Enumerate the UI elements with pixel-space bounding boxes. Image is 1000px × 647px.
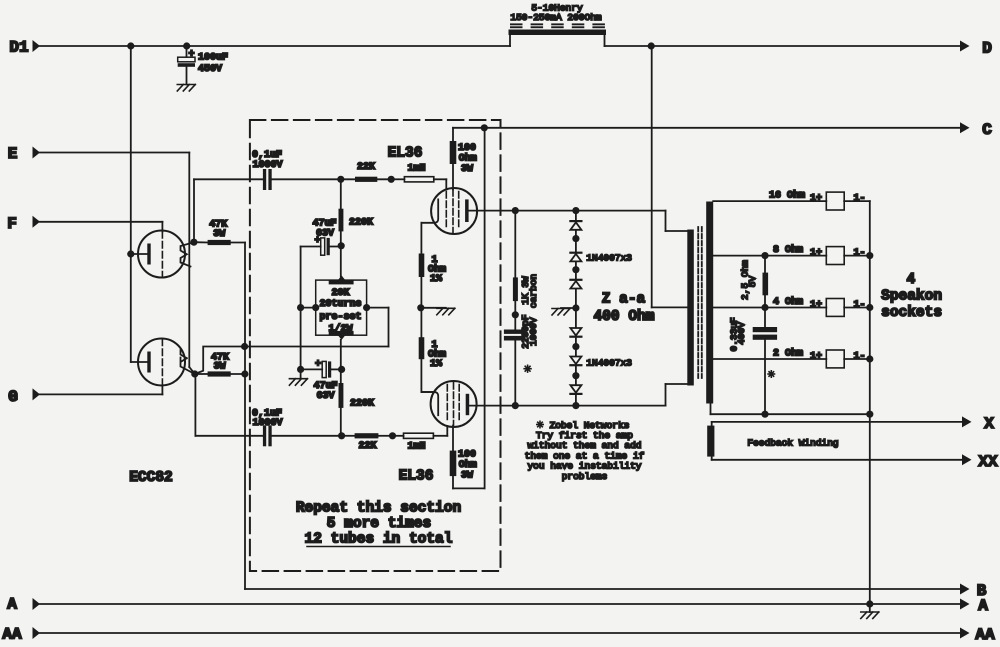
speakon socket 3 box (826, 299, 844, 317)
svg-text:F: F (7, 215, 17, 233)
svg-text:D1: D1 (9, 39, 28, 57)
svg-text:400 Ohm: 400 Ohm (594, 309, 655, 325)
wire L2 left (391, 178, 404, 180)
pentode V2 cathode (421, 199, 438, 222)
node: V1a cathode junction (190, 239, 197, 246)
capacitor C1 bottom plate (178, 63, 195, 67)
svg-text:220K: 220K (349, 218, 373, 229)
wire E input (40, 152, 189, 154)
wire speaker return column (869, 201, 871, 604)
node: D rail junction to 100uF (183, 42, 190, 49)
svg-text:problems: problems (562, 471, 608, 482)
wire centre node to R9 (420, 308, 422, 337)
resistor R12 2,5 Ohm 5V body (763, 273, 769, 296)
wire AA rail (40, 632, 961, 634)
wire 16 Ohm tap (713, 200, 826, 202)
node: V1b cathode junction (191, 370, 198, 377)
wire R8 to centre ground node (420, 277, 422, 308)
svg-text:12 tubes in total: 12 tubes in total (305, 532, 453, 548)
wire 8 Ohm tap (713, 255, 826, 257)
wire feedback top stub (711, 422, 713, 426)
wire pot right to grid return (367, 307, 389, 309)
svg-text:G: G (8, 388, 18, 406)
svg-text:X: X (984, 415, 994, 433)
wire pot bottom link (340, 340, 342, 370)
svg-text:Ohm: Ohm (459, 459, 477, 471)
wire C3 right (272, 435, 342, 437)
svg-text:1%: 1% (430, 359, 442, 370)
wire socket4 to return column (844, 358, 870, 360)
ground at A rail (869, 604, 871, 612)
triode V1a cathode (181, 242, 194, 266)
wire X line (712, 421, 962, 423)
wire lower 220K link top (340, 369, 342, 383)
wire V3 anode line (469, 405, 665, 407)
ground centre (cathode sense) (437, 307, 455, 309)
pentode V2 EL36 envelope (431, 188, 477, 234)
node: upper 47uF junction (338, 242, 345, 249)
wire V2 anode to transformer primary top (665, 211, 667, 231)
svg-text:1-: 1- (853, 300, 865, 311)
svg-text:EL36: EL36 (388, 146, 423, 162)
wire L3 left (393, 435, 404, 437)
terminal AA arrow right (960, 628, 970, 639)
pentode V3 grid g2 (dashed) (453, 383, 455, 426)
svg-text:400V: 400V (736, 322, 747, 345)
pentode V3 EL36 envelope (431, 381, 477, 427)
ground below C1 (177, 84, 195, 86)
wire V1b anode (131, 361, 148, 363)
wire C4 left (301, 246, 321, 248)
svg-text:100uF: 100uF (198, 53, 228, 64)
resistor R4 22K body (355, 433, 379, 438)
terminal A arrow right (960, 599, 970, 610)
svg-text:1000V: 1000V (252, 418, 282, 429)
svg-text:3W: 3W (214, 361, 226, 372)
terminal AA arrow left (33, 627, 41, 639)
transformer T1 core (dashed) (697, 227, 699, 378)
svg-text:1-: 1- (853, 194, 865, 205)
resistor R8 1 Ohm 1% body (419, 254, 425, 278)
svg-text:EL36: EL36 (399, 469, 434, 485)
wire XX line (712, 459, 962, 461)
wire R12 bottom (764, 295, 766, 307)
wire B feeder vertical (244, 243, 246, 590)
node: V1a anode junction (127, 250, 134, 257)
svg-text:1%: 1% (430, 274, 442, 285)
svg-text:1+: 1+ (810, 352, 822, 363)
pentode V2 anode plate (465, 199, 469, 222)
triode V1a grid (dashed) (161, 232, 163, 278)
svg-text:Repeat this section: Repeat this section (296, 501, 461, 517)
resistor R10 100 Ohm 3W body (450, 451, 457, 477)
wire R3 left (341, 178, 355, 180)
node: lower 47uF junction (338, 366, 345, 373)
transformer T1 primary winding bar (687, 230, 694, 386)
node: diode string bottom (572, 402, 579, 409)
svg-text:1-: 1- (853, 248, 865, 259)
wire ground column (left) (300, 247, 302, 378)
wire L2 right to V2 grid (434, 178, 447, 180)
wire 2 Ohm tap (713, 358, 826, 360)
wire C6 bottom (514, 341, 516, 406)
svg-text:22K: 22K (357, 162, 375, 173)
wire V1a cathode up to coupling cap (193, 179, 195, 242)
node: ground column junction (297, 366, 304, 373)
svg-text:100: 100 (458, 450, 476, 461)
capacitor C6 2200pF plates (504, 330, 525, 334)
wire R5-pot link (340, 247, 342, 277)
terminal F arrow (33, 216, 41, 228)
svg-text:1mH: 1mH (407, 164, 425, 175)
node: 4 Ohm tap junction (761, 304, 768, 311)
capacitor C4 left plate (outlined) (321, 238, 325, 255)
choke L1 core dashes (510, 23, 523, 25)
node: lower grid line left junction (338, 432, 345, 439)
wire HT feed to ECC82 anodes (130, 46, 132, 362)
svg-text:63V: 63V (316, 228, 334, 239)
node: D rail junction to ECC82 anodes (127, 42, 134, 49)
svg-text:3W: 3W (213, 229, 225, 240)
svg-text:D: D (982, 40, 992, 58)
wire R10 top to g2 (452, 426, 454, 451)
svg-text:100: 100 (458, 143, 476, 154)
wire diode string segment (575, 211, 577, 406)
svg-text:1N4007x3: 1N4007x3 (586, 357, 632, 368)
svg-text:5V: 5V (747, 276, 758, 288)
node: R2 right junction (241, 370, 248, 377)
note asterisk (537, 424, 543, 426)
underline for 12 tubes in total (307, 546, 450, 548)
node: cathode sense centre (417, 304, 424, 311)
node: diode junction (572, 266, 579, 273)
svg-text:AA: AA (975, 626, 995, 644)
capacitor C5 right plate (328, 361, 331, 377)
pentode V2 grid g3 (dashed) (458, 192, 460, 229)
svg-text:150-250mA 200Ohm: 150-250mA 200Ohm (510, 12, 602, 23)
svg-text:C: C (982, 121, 992, 139)
inductor L2 1mH body (outlined) (404, 177, 433, 182)
node: diode junction (572, 235, 579, 242)
diode D4 1N4007 (570, 336, 581, 338)
speakon socket 1 box (826, 192, 844, 210)
pentode V3 grid g3 (dashed) (458, 385, 460, 422)
capacitor C2 0,1uF 1000V upper plates (263, 169, 266, 190)
wire pot left link (301, 307, 316, 309)
svg-text:450V: 450V (198, 64, 222, 75)
triode V1b envelope (138, 339, 185, 386)
svg-text:sockets: sockets (881, 305, 942, 321)
choke L1 winding bar (509, 30, 607, 36)
wire G input to V1b grid (40, 393, 162, 395)
wire Zobel top (514, 211, 516, 278)
terminal XX arrow (962, 454, 972, 465)
svg-text:63V: 63V (316, 391, 334, 402)
svg-text:pre-set: pre-set (319, 312, 361, 323)
node: diode junction (572, 343, 579, 350)
svg-text:1mH: 1mH (407, 441, 425, 452)
svg-text:1+: 1+ (810, 300, 822, 311)
pentode V2 grid g2 (dashed) (452, 190, 454, 233)
speakon socket 4 box (826, 350, 844, 368)
resistor R3 22K body (355, 177, 377, 182)
wire R11 to C6 (514, 301, 516, 329)
svg-text:Ohm: Ohm (459, 152, 477, 164)
wire C7 bottom (764, 340, 766, 414)
node: upper grid line left junction (337, 176, 344, 183)
pentode V2 grid g1 (dashed) (445, 192, 447, 229)
svg-text:E: E (8, 145, 18, 163)
wire socket2 to return column (844, 255, 870, 257)
node: pot left terminal on box (312, 304, 319, 311)
wire R4 right (378, 435, 392, 437)
wire R4 left (342, 435, 355, 437)
node: return column 8 Ohm (866, 252, 873, 259)
svg-text:AA: AA (2, 626, 22, 644)
wire centre tap vertical (651, 46, 653, 307)
wire R10 bottom loop (452, 476, 454, 488)
potentiometer P1 wiper arrow bottom (338, 335, 345, 340)
terminal X arrow (962, 416, 972, 427)
svg-text:carbon: carbon (528, 274, 539, 308)
wire C rail (484, 127, 960, 129)
asterisk mark at C7 (768, 373, 774, 375)
svg-text:20K: 20K (331, 288, 349, 299)
wire V1a anode (131, 253, 148, 255)
svg-text:1N4007x3: 1N4007x3 (586, 252, 632, 263)
resistor R11 1K 3W carbon body (513, 277, 518, 301)
inductor L3 1mH body (outlined) (404, 433, 434, 438)
wire centre tap horizontal (652, 306, 688, 308)
node: diode string top (572, 207, 579, 214)
svg-text:4 Ohm: 4 Ohm (773, 296, 803, 308)
wire R1 right to B line (231, 242, 245, 244)
triode V1a envelope (138, 231, 185, 278)
triode V1b grid (dashed) (161, 339, 163, 385)
diode D5 1N4007 (570, 364, 581, 366)
node: return column 4 Ohm (866, 304, 873, 311)
svg-text:XX: XX (978, 453, 998, 471)
terminal A arrow left (33, 598, 41, 610)
wire C7 top (764, 308, 766, 328)
svg-text:220K: 220K (350, 399, 374, 410)
wire C2 right (272, 178, 341, 180)
resistor R6 220K lower body (339, 383, 344, 408)
wire socket3 to return column (844, 307, 870, 309)
wire B rail (245, 588, 961, 590)
svg-text:5 more times: 5 more times (327, 516, 431, 532)
potentiometer P1 wiper arrow top (338, 276, 345, 281)
terminal B arrow (960, 584, 970, 595)
terminal E arrow (33, 147, 41, 159)
resistor R1 47K 3W body (208, 240, 231, 245)
wire R3 right (377, 178, 391, 180)
choke L1 5-10Henry riser left (509, 34, 511, 46)
wire R7 top to screen node (452, 128, 454, 141)
node: 8 Ohm tap junction (761, 252, 768, 259)
diode D2 1N4007 (570, 252, 581, 254)
capacitor C1 top plate (outlined) (178, 57, 195, 62)
wire secondary bottom tap (710, 404, 712, 415)
node: secondary bottom at return column (866, 411, 873, 418)
node: speaker return to A rail (866, 600, 873, 607)
triode V1b anode plate (147, 352, 150, 373)
wire C5 right (331, 368, 341, 370)
wire grid return from V1b cathode (195, 347, 389, 375)
svg-text:A: A (978, 597, 988, 615)
wire bias column top (from upper grid junction) (340, 179, 342, 208)
node: diode junction (572, 372, 579, 379)
svg-text:Speakon: Speakon (881, 289, 942, 305)
wire C2 left (194, 178, 263, 180)
node: Zobel mid junction (512, 311, 519, 318)
triode V1b cathode (181, 350, 195, 374)
node: lower grid line mid junction (389, 432, 396, 439)
wire to centre ground (421, 307, 446, 309)
wire L3 right to V3 grid (433, 435, 447, 437)
resistor R2 47K 3W body (208, 371, 231, 376)
terminal D1 arrow (33, 40, 41, 52)
svg-text:Z a-a: Z a-a (602, 292, 646, 308)
svg-text:3W: 3W (461, 164, 473, 175)
choke L1 riser right (604, 34, 606, 46)
node: pot right terminal (363, 304, 370, 311)
wire V2 cathode down (420, 223, 422, 254)
pentode V3 cathode (421, 392, 438, 415)
capacitor C3 0,1uF 1000V lower plates (263, 425, 266, 446)
node: return column 2 Ohm (866, 355, 873, 362)
capacitor C5 left plate (outlined) (322, 361, 326, 377)
wire D rail right (605, 45, 961, 47)
svg-text:1/2W: 1/2W (328, 323, 352, 335)
wire screen feed vertical (484, 128, 486, 489)
node: diode string centre (572, 304, 579, 311)
wire V3 anode to transformer primary bottom (665, 384, 667, 406)
node: secondary bottom at C7 column (761, 411, 768, 418)
diode D1 1N4007 (570, 220, 581, 222)
wire V1b cathode down to lower coupling cap (194, 374, 196, 436)
svg-text:+: + (188, 50, 194, 61)
triode V1a anode plate (147, 244, 150, 265)
potentiometer P1 top element bar (329, 280, 354, 285)
wire C5 left (301, 368, 323, 370)
ground diode string centre (552, 308, 570, 310)
capacitor C7 0.33uF 400V plates (753, 327, 777, 332)
capacitor C4 right plate (327, 238, 330, 255)
wire A rail (40, 603, 961, 605)
diode D3 1N4007 (570, 279, 581, 281)
diode D6 1N4007 (570, 393, 581, 395)
svg-text:1+: 1+ (810, 194, 822, 205)
wire R12 top (764, 256, 766, 273)
node: B feeder and grid-return crossing (241, 343, 248, 350)
svg-text:20turns: 20turns (319, 299, 361, 310)
wire R5 to 47uF junction (340, 231, 342, 245)
svg-text:1+: 1+ (810, 248, 822, 259)
wire socket1 to return column (844, 200, 870, 202)
svg-text:1000V: 1000V (252, 160, 282, 171)
pentode V3 anode plate (466, 394, 470, 415)
wire R1 left (194, 241, 208, 243)
resistor R7 100 Ohm 3W body (450, 141, 457, 164)
resistor R9 1 Ohm 1% body (419, 337, 425, 359)
terminal D arrow right (960, 41, 970, 52)
wire R2 left (195, 373, 208, 375)
terminal C arrow (960, 122, 970, 133)
terminal G arrow (33, 388, 41, 400)
speakon socket 2 box (826, 247, 844, 265)
svg-text:2 Ohm: 2 Ohm (773, 347, 803, 359)
wire lower 220K link bottom (340, 408, 342, 436)
wire feedback bottom stub (711, 457, 713, 460)
dashed repeat-section box (250, 120, 501, 571)
node: upper grid line mid junction (388, 176, 395, 183)
node: pot left terminal outer (297, 304, 304, 311)
pentode V3 grid g1 (dashed) (446, 385, 448, 422)
potentiometer P1 body box (316, 280, 367, 335)
svg-text:8 Ohm: 8 Ohm (773, 244, 803, 256)
node: Zobel tap lower (512, 402, 519, 409)
wire D rail left (40, 45, 510, 47)
potentiometer P1 bottom element bar (329, 331, 354, 336)
svg-text:ECC82: ECC82 (129, 470, 173, 486)
node: Zobel tap upper (512, 207, 519, 214)
wire to diode ground (561, 307, 576, 309)
wire R7 bottom to g2 (452, 164, 454, 190)
node: screen supply junction on C rail (481, 124, 488, 131)
capacitor C1 lead bottom (186, 67, 188, 85)
wire E vertical down to V1b cathode (188, 153, 190, 368)
svg-text:Feedback Winding: Feedback Winding (747, 438, 838, 449)
transformer T1 feedback winding bar (707, 426, 714, 457)
Zobel asterisk mark (524, 368, 531, 370)
svg-text:1000V: 1000V (528, 317, 539, 346)
svg-text:16 Ohm: 16 Ohm (769, 190, 805, 202)
wire F input to V1a grid (40, 221, 162, 223)
wire V2 anode line (469, 210, 666, 212)
svg-text:A: A (7, 596, 17, 614)
svg-text:1-: 1- (853, 352, 865, 363)
capacitor C1 100uF 450V lead top (186, 46, 188, 57)
resistor R5 220K upper body (339, 209, 344, 232)
wire R2 right (231, 373, 245, 375)
node: D rail junction to transformer centre tap (648, 42, 655, 49)
wire C4 right (330, 246, 341, 248)
svg-text:4: 4 (906, 272, 915, 288)
transformer T1 secondary winding bar (706, 202, 713, 404)
wire R9 to V3 cathode (420, 359, 422, 392)
svg-text:22K: 22K (358, 441, 376, 452)
wire 4 Ohm tap (713, 307, 826, 309)
svg-text:3W: 3W (461, 470, 473, 481)
ground below bias column (289, 378, 307, 380)
